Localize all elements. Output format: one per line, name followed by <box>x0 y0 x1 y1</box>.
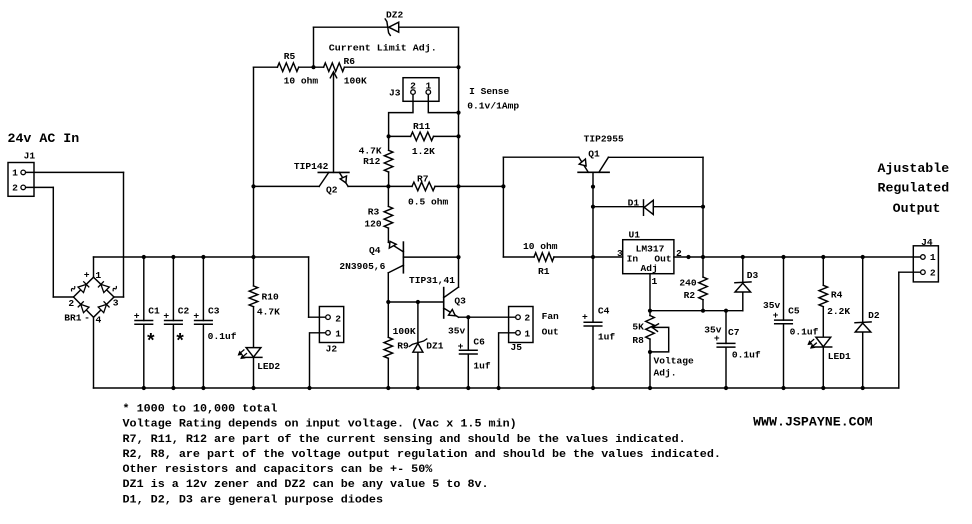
svg-text:+: + <box>458 341 464 352</box>
svg-text:R12: R12 <box>363 156 380 167</box>
svg-text:+: + <box>163 310 169 321</box>
svg-text:In: In <box>627 254 639 265</box>
svg-text:J1: J1 <box>24 150 36 161</box>
svg-text:*: * <box>174 331 185 353</box>
svg-text:Voltage Rating depends on inpu: Voltage Rating depends on input voltage.… <box>123 419 517 431</box>
svg-text:+: + <box>773 310 779 321</box>
svg-text:100K: 100K <box>344 75 367 86</box>
svg-text:1uf: 1uf <box>598 332 615 343</box>
svg-text:LED1: LED1 <box>828 351 851 362</box>
svg-text:Out: Out <box>542 326 559 337</box>
svg-text:5K: 5K <box>632 321 644 332</box>
svg-text:1: 1 <box>652 276 658 287</box>
svg-text:2: 2 <box>68 298 74 309</box>
svg-text:DZ2: DZ2 <box>386 10 403 21</box>
svg-text:1.2K: 1.2K <box>412 146 435 157</box>
svg-text:C7: C7 <box>728 327 740 338</box>
svg-text:DZ1 is a 12v zener and DZ2 can: DZ1 is a 12v zener and DZ2 can be any va… <box>123 479 489 491</box>
svg-text:C1: C1 <box>148 305 160 316</box>
svg-text:I Sense: I Sense <box>469 86 509 97</box>
svg-text:2N3905,6: 2N3905,6 <box>339 261 385 272</box>
svg-text:2.2K: 2.2K <box>827 306 850 317</box>
svg-text:0.1uf: 0.1uf <box>790 327 819 338</box>
svg-text:J3: J3 <box>389 88 401 99</box>
svg-text:0.1v/1Amp: 0.1v/1Amp <box>467 101 519 112</box>
svg-text:C5: C5 <box>788 306 800 317</box>
svg-text:+: + <box>582 312 588 323</box>
svg-text:R7: R7 <box>417 174 429 185</box>
svg-text:-: - <box>84 313 90 324</box>
svg-text:10 ohm: 10 ohm <box>284 76 319 87</box>
svg-text:Q1: Q1 <box>588 149 600 160</box>
svg-text:TIP31,41: TIP31,41 <box>409 275 455 286</box>
svg-text:0.1uf: 0.1uf <box>732 350 761 361</box>
svg-text:TIP2955: TIP2955 <box>584 133 624 144</box>
svg-text:C3: C3 <box>208 305 220 316</box>
svg-text:R2, R8, are part of the voltag: R2, R8, are part of the voltage output r… <box>123 449 721 461</box>
svg-text:R6: R6 <box>344 56 356 67</box>
svg-text:3: 3 <box>617 248 623 259</box>
svg-text:1: 1 <box>12 167 18 178</box>
svg-text:+: + <box>714 333 720 344</box>
svg-text:Q2: Q2 <box>326 184 338 195</box>
svg-text:J2: J2 <box>326 344 338 355</box>
svg-text:Current Limit Adj.: Current Limit Adj. <box>329 42 437 53</box>
svg-text:D2: D2 <box>868 310 880 321</box>
svg-text:Q4: Q4 <box>369 245 381 256</box>
svg-text:2: 2 <box>12 182 18 193</box>
svg-text:+: + <box>84 270 90 281</box>
svg-text:WWW.JSPAYNE.COM: WWW.JSPAYNE.COM <box>753 415 873 430</box>
svg-text:120: 120 <box>364 218 381 229</box>
svg-text:2: 2 <box>930 268 936 279</box>
svg-text:1: 1 <box>335 329 341 340</box>
svg-text:D3: D3 <box>747 270 759 281</box>
svg-text:240: 240 <box>679 277 696 288</box>
svg-text:D1: D1 <box>628 198 640 209</box>
svg-text:DZ1: DZ1 <box>426 341 443 352</box>
svg-text:0.1uf: 0.1uf <box>208 331 237 342</box>
svg-text:*: * <box>145 331 156 353</box>
svg-text:D1, D2, D3 are general purpose: D1, D2, D3 are general purpose diodes <box>123 494 384 506</box>
svg-text:R9: R9 <box>397 341 409 352</box>
svg-text:R1: R1 <box>538 266 550 277</box>
svg-text:3: 3 <box>113 297 119 308</box>
svg-text:R8: R8 <box>632 335 644 346</box>
svg-text:1: 1 <box>524 328 530 339</box>
svg-text:Adj.: Adj. <box>654 368 677 379</box>
svg-text:R5: R5 <box>284 51 296 62</box>
svg-text:1: 1 <box>426 81 432 92</box>
svg-text:35v: 35v <box>448 325 465 336</box>
svg-text:Adj: Adj <box>641 263 658 274</box>
svg-text:Fan: Fan <box>542 311 559 322</box>
svg-text:10 ohm: 10 ohm <box>523 241 558 252</box>
svg-text:Ajustable: Ajustable <box>878 161 950 176</box>
svg-text:R10: R10 <box>262 291 279 302</box>
svg-text:1uf: 1uf <box>473 361 490 372</box>
svg-text:1: 1 <box>95 270 101 281</box>
svg-text:C2: C2 <box>178 305 190 316</box>
svg-text:J4: J4 <box>921 237 933 248</box>
svg-text:R11: R11 <box>413 121 430 132</box>
svg-text:R7, R11, R12 are part of the c: R7, R11, R12 are part of the current sen… <box>123 434 686 446</box>
svg-text:BR1: BR1 <box>64 313 81 324</box>
svg-text:Voltage: Voltage <box>654 356 694 367</box>
svg-text:100K: 100K <box>393 326 416 337</box>
svg-text:C4: C4 <box>598 305 610 316</box>
svg-text:* 1000 to 10,000 total: * 1000 to 10,000 total <box>123 404 278 416</box>
svg-text:4: 4 <box>96 314 102 325</box>
svg-text:LED2: LED2 <box>257 361 280 372</box>
svg-text:2: 2 <box>335 313 341 324</box>
svg-text:4.7K: 4.7K <box>257 307 280 318</box>
svg-text:C6: C6 <box>473 336 485 347</box>
svg-text:24v AC In: 24v AC In <box>8 131 80 146</box>
svg-text:0.5 ohm: 0.5 ohm <box>408 197 448 208</box>
svg-text:+: + <box>193 310 199 321</box>
svg-text:R2: R2 <box>684 290 696 301</box>
svg-text:Q3: Q3 <box>454 295 466 306</box>
svg-text:R4: R4 <box>831 290 843 301</box>
svg-text:Regulated: Regulated <box>878 181 950 196</box>
svg-text:Output: Output <box>893 201 941 216</box>
svg-text:1: 1 <box>930 252 936 263</box>
svg-text:+: + <box>134 310 140 321</box>
svg-text:Other resistors and capacitors: Other resistors and capacitors can be +-… <box>123 464 433 476</box>
svg-text:TIP142: TIP142 <box>294 161 329 172</box>
svg-text:2: 2 <box>410 81 416 92</box>
svg-text:J5: J5 <box>511 342 523 353</box>
svg-text:R3: R3 <box>368 206 380 217</box>
svg-text:2: 2 <box>524 313 530 324</box>
svg-text:2: 2 <box>676 248 682 259</box>
svg-text:U1: U1 <box>629 229 641 240</box>
